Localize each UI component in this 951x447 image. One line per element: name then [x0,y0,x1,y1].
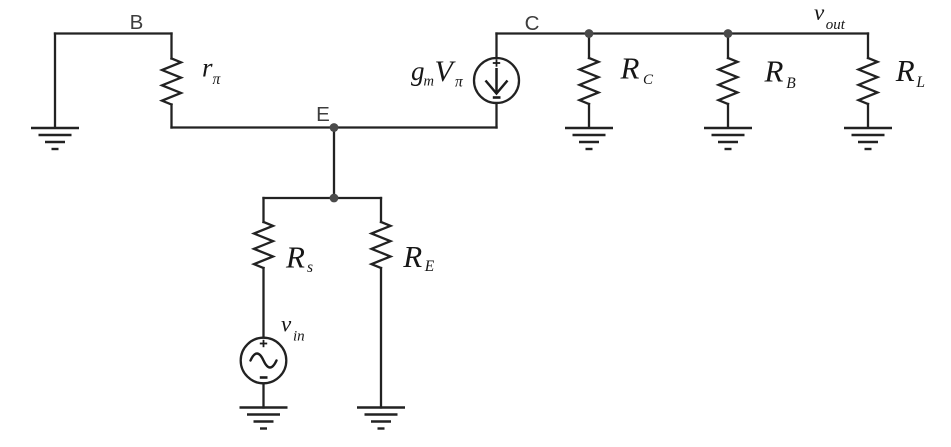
resistor RE [372,222,391,268]
svg-text:π: π [455,73,464,90]
resistor RL [859,58,878,104]
v_in minus mark [260,376,268,379]
resistor RC [580,58,599,104]
svg-text:C: C [525,12,540,35]
svg-text:E: E [424,258,435,275]
svg-text:B: B [786,75,796,92]
ground (left, node B branch) [31,128,79,149]
wire from node E down to junction [333,128,335,199]
node dot at RB [724,29,733,38]
svg-text:C: C [643,72,654,88]
svg-text:B: B [130,11,144,34]
node dot at RC [585,29,594,38]
svg-text:V: V [435,55,457,88]
wire RC bottom lead [588,104,590,128]
wire r_pi top lead [170,34,172,59]
svg-text:L: L [915,74,925,91]
wire RL bottom lead [867,104,869,128]
svg-text:R: R [620,50,640,85]
ground (under RB) [704,128,752,149]
resistor r_pi [162,59,181,105]
svg-text:v: v [814,0,825,25]
wire current source top lead [495,34,497,59]
svg-text:in: in [293,329,305,345]
wire RE top lead [380,198,382,222]
source v_in circle [241,338,287,384]
v_in source sine wave [251,354,277,368]
wire Rs bottom lead to v_in source [262,268,264,338]
wire RE bottom lead [380,268,382,408]
node E junction dot [330,123,339,132]
svg-text:π: π [213,71,222,88]
svg-text:g: g [411,56,425,86]
svg-text:E: E [316,103,330,126]
svg-text:R: R [895,53,915,88]
svg-text:out: out [826,17,846,33]
ground (under RL) [844,128,892,149]
wire RB top lead [727,34,729,59]
svg-text:r: r [202,53,213,83]
wire Rs top lead [262,198,264,222]
resistor Rs [254,222,273,268]
wire top-left rail from ground to node B to r_pi [55,32,172,34]
v_in plus mark [260,340,267,347]
svg-text:s: s [307,259,313,276]
current source arrow [486,68,508,94]
wire current source bottom lead [495,103,497,128]
ground (under RC) [565,128,613,149]
current source minus mark [493,96,501,99]
svg-text:R: R [402,239,422,274]
ground (under RE) [357,408,405,429]
svg-text:R: R [285,240,305,275]
svg-text:m: m [424,73,434,89]
svg-text:v: v [281,312,292,337]
current source g_m V_pi circle [474,58,519,103]
wire mid rail E [172,126,497,128]
wire r_pi bottom lead [170,105,172,128]
wire RB bottom lead [727,104,729,128]
wire left vertical drop to ground [54,34,56,128]
wire RC top lead [588,34,590,59]
current source plus mark [493,59,500,66]
ground (under v_in) [240,408,288,429]
wire top rail C to v_out [497,32,869,34]
junction dot between Rs and RE [330,194,339,203]
wire lower rail between Rs and RE [264,197,382,199]
svg-text:R: R [764,53,784,88]
resistor RB [719,58,738,104]
wire v_in bottom lead [262,384,264,408]
wire RL top lead [867,34,869,59]
